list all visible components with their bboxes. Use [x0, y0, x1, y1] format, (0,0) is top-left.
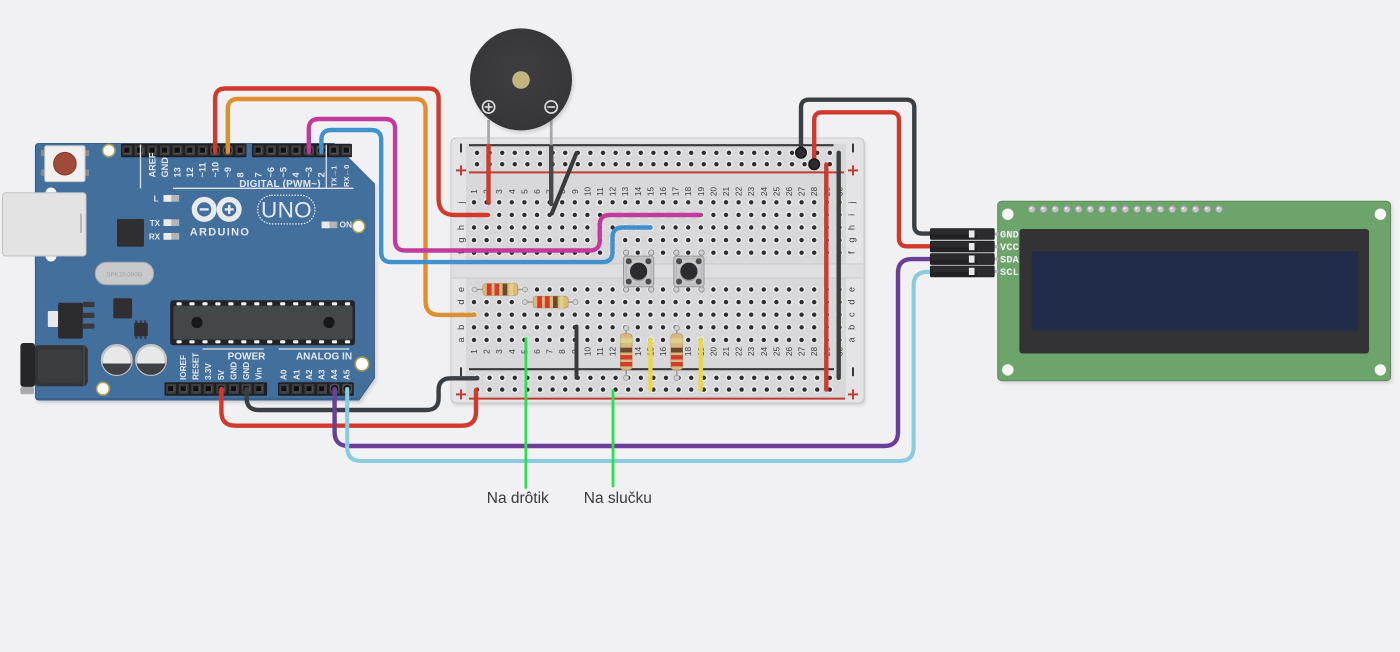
svg-text:10: 10 — [582, 187, 592, 197]
svg-text:DIGITAL (PWM~): DIGITAL (PWM~) — [239, 179, 321, 190]
svg-text:25: 25 — [771, 187, 781, 197]
svg-text:~11: ~11 — [198, 162, 208, 177]
svg-text:26: 26 — [784, 347, 794, 357]
svg-text:GND: GND — [229, 362, 238, 380]
svg-text:L: L — [154, 195, 159, 204]
svg-text:AREF: AREF — [147, 152, 157, 177]
svg-text:27: 27 — [797, 347, 807, 357]
svg-text:GND: GND — [242, 362, 251, 380]
svg-text:h: h — [847, 225, 857, 230]
svg-text:22: 22 — [734, 347, 744, 357]
svg-text:h: h — [456, 225, 466, 230]
svg-text:Vin: Vin — [255, 367, 264, 380]
svg-text:4: 4 — [507, 349, 517, 354]
svg-text:A5: A5 — [343, 369, 352, 380]
svg-text:A4: A4 — [330, 369, 339, 380]
svg-text:TX→1: TX→1 — [330, 165, 339, 187]
svg-text:23: 23 — [746, 187, 756, 197]
svg-text:21: 21 — [721, 187, 731, 197]
svg-text:14: 14 — [633, 347, 643, 357]
svg-text:14: 14 — [633, 187, 643, 197]
svg-text:a: a — [847, 336, 857, 342]
svg-text:5: 5 — [519, 189, 529, 194]
svg-text:Na drôtik: Na drôtik — [487, 490, 549, 507]
svg-text:3: 3 — [494, 189, 504, 194]
svg-text:RX: RX — [149, 233, 161, 242]
svg-text:TX: TX — [150, 219, 161, 228]
svg-text:16: 16 — [658, 347, 668, 357]
svg-text:RESET: RESET — [192, 353, 201, 380]
svg-text:22: 22 — [734, 187, 744, 197]
svg-text:UNO: UNO — [261, 198, 312, 223]
svg-text:g: g — [456, 238, 466, 243]
svg-text:~6: ~6 — [266, 167, 276, 177]
svg-text:5: 5 — [519, 349, 529, 354]
svg-text:c: c — [847, 312, 857, 317]
svg-text:GND: GND — [160, 157, 170, 178]
svg-text:12: 12 — [185, 167, 195, 177]
svg-text:17: 17 — [671, 187, 681, 197]
svg-text:11: 11 — [595, 347, 605, 356]
svg-text:10: 10 — [582, 347, 592, 357]
svg-text:2: 2 — [482, 349, 492, 354]
svg-text:ARDUINO: ARDUINO — [190, 227, 250, 239]
svg-text:e: e — [456, 287, 466, 292]
svg-text:16: 16 — [658, 187, 668, 197]
svg-text:~9: ~9 — [223, 167, 233, 177]
svg-text:A1: A1 — [292, 369, 301, 380]
svg-text:18: 18 — [683, 187, 693, 197]
svg-text:12: 12 — [608, 347, 618, 357]
svg-text:f: f — [847, 251, 857, 254]
svg-text:27: 27 — [797, 187, 807, 197]
svg-text:20: 20 — [708, 187, 718, 197]
svg-text:Na slučku: Na slučku — [584, 490, 652, 507]
svg-text:A2: A2 — [305, 369, 314, 380]
svg-text:21: 21 — [721, 347, 731, 357]
svg-text:24: 24 — [759, 187, 769, 197]
svg-text:9: 9 — [570, 189, 580, 194]
svg-text:1: 1 — [469, 349, 479, 354]
svg-text:b: b — [847, 325, 857, 330]
svg-text:VCC: VCC — [1000, 243, 1019, 254]
svg-text:A3: A3 — [318, 369, 327, 380]
svg-text:3.3V: 3.3V — [204, 363, 213, 380]
svg-text:e: e — [847, 287, 857, 292]
svg-text:SDA: SDA — [1000, 256, 1020, 267]
svg-text:25: 25 — [771, 347, 781, 357]
svg-text:GND: GND — [1000, 231, 1019, 242]
svg-text:1: 1 — [469, 189, 479, 194]
svg-text:5V: 5V — [217, 369, 226, 380]
svg-text:28: 28 — [809, 347, 819, 357]
svg-text:23: 23 — [746, 347, 756, 357]
svg-text:15: 15 — [645, 187, 655, 197]
svg-text:19: 19 — [696, 187, 706, 197]
svg-text:11: 11 — [595, 187, 605, 196]
svg-text:SPK16.000G: SPK16.000G — [106, 272, 142, 279]
svg-text:POWER: POWER — [228, 352, 267, 363]
svg-text:~5: ~5 — [279, 167, 289, 177]
svg-text:d: d — [456, 300, 466, 305]
svg-text:~3: ~3 — [304, 167, 314, 177]
svg-text:~10: ~10 — [210, 162, 220, 178]
svg-text:7: 7 — [254, 172, 264, 177]
svg-text:3: 3 — [494, 349, 504, 354]
svg-text:A0: A0 — [280, 369, 289, 380]
svg-text:7: 7 — [545, 349, 555, 354]
svg-text:i: i — [847, 214, 857, 216]
svg-text:20: 20 — [708, 347, 718, 357]
svg-text:SCL: SCL — [1000, 268, 1019, 279]
svg-text:6: 6 — [532, 189, 542, 194]
svg-text:18: 18 — [683, 347, 693, 357]
svg-text:6: 6 — [532, 349, 542, 354]
svg-text:RX←0: RX←0 — [342, 165, 351, 187]
svg-text:4: 4 — [507, 189, 517, 194]
svg-text:8: 8 — [557, 349, 567, 354]
svg-text:j: j — [456, 201, 466, 204]
svg-text:26: 26 — [784, 187, 794, 197]
svg-text:24: 24 — [759, 347, 769, 357]
svg-text:28: 28 — [809, 187, 819, 197]
svg-text:IOREF: IOREF — [179, 355, 188, 380]
svg-text:ANALOG IN: ANALOG IN — [296, 352, 352, 363]
svg-text:4: 4 — [291, 172, 301, 178]
svg-text:12: 12 — [608, 187, 618, 197]
svg-text:2: 2 — [316, 172, 326, 177]
svg-text:8: 8 — [235, 172, 245, 177]
svg-text:ON: ON — [340, 220, 353, 230]
svg-text:b: b — [456, 325, 466, 330]
svg-text:d: d — [847, 300, 857, 305]
svg-text:13: 13 — [620, 187, 630, 197]
svg-text:13: 13 — [173, 167, 183, 177]
svg-text:a: a — [456, 336, 466, 342]
svg-text:j: j — [847, 201, 857, 204]
svg-text:g: g — [847, 238, 857, 243]
